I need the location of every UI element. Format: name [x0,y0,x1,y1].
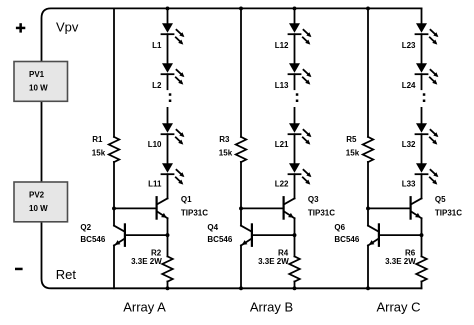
svg-text:3.3E 2W: 3.3E 2W [131,257,162,266]
svg-text:R1: R1 [92,135,103,144]
svg-text:BC546: BC546 [80,235,105,244]
svg-text:L13: L13 [275,81,289,90]
svg-text:TIP31C: TIP31C [308,208,335,217]
svg-text:R3: R3 [219,135,230,144]
svg-text:L12: L12 [275,41,289,50]
svg-text:L21: L21 [275,140,289,149]
svg-text:L33: L33 [402,180,416,189]
svg-text:TIP31C: TIP31C [435,208,462,217]
svg-text:L10: L10 [148,140,162,149]
svg-text:Array B: Array B [250,300,293,315]
svg-text:3.3E 2W: 3.3E 2W [258,257,289,266]
svg-text:L1: L1 [152,41,162,50]
svg-text:L23: L23 [402,41,416,50]
svg-text:15k: 15k [92,149,106,158]
svg-text:10 W: 10 W [29,204,48,213]
svg-text:Q2: Q2 [80,223,91,232]
svg-text:L22: L22 [275,180,289,189]
svg-text:TIP31C: TIP31C [181,208,208,217]
svg-text:3.3E 2W: 3.3E 2W [385,257,416,266]
svg-text:Q4: Q4 [207,223,218,232]
svg-text:BC546: BC546 [207,235,232,244]
svg-text:R5: R5 [346,135,357,144]
svg-text:Q5: Q5 [435,195,446,204]
svg-text:15k: 15k [346,149,360,158]
svg-text:L2: L2 [152,81,162,90]
svg-text:10 W: 10 W [29,84,48,93]
svg-text:15k: 15k [219,149,233,158]
svg-text:Array A: Array A [123,300,166,315]
svg-text:L32: L32 [402,140,416,149]
svg-text:Q3: Q3 [308,195,319,204]
svg-text:BC546: BC546 [334,235,359,244]
svg-text:Array C: Array C [376,300,420,315]
svg-text:Vpv: Vpv [56,20,79,35]
svg-text:Ret: Ret [56,267,77,282]
svg-text:L11: L11 [148,180,162,189]
svg-text:Q6: Q6 [334,223,345,232]
svg-text:Q1: Q1 [181,195,192,204]
svg-text:PV2: PV2 [29,191,45,200]
svg-text:PV1: PV1 [29,70,45,79]
svg-text:L24: L24 [402,81,416,90]
